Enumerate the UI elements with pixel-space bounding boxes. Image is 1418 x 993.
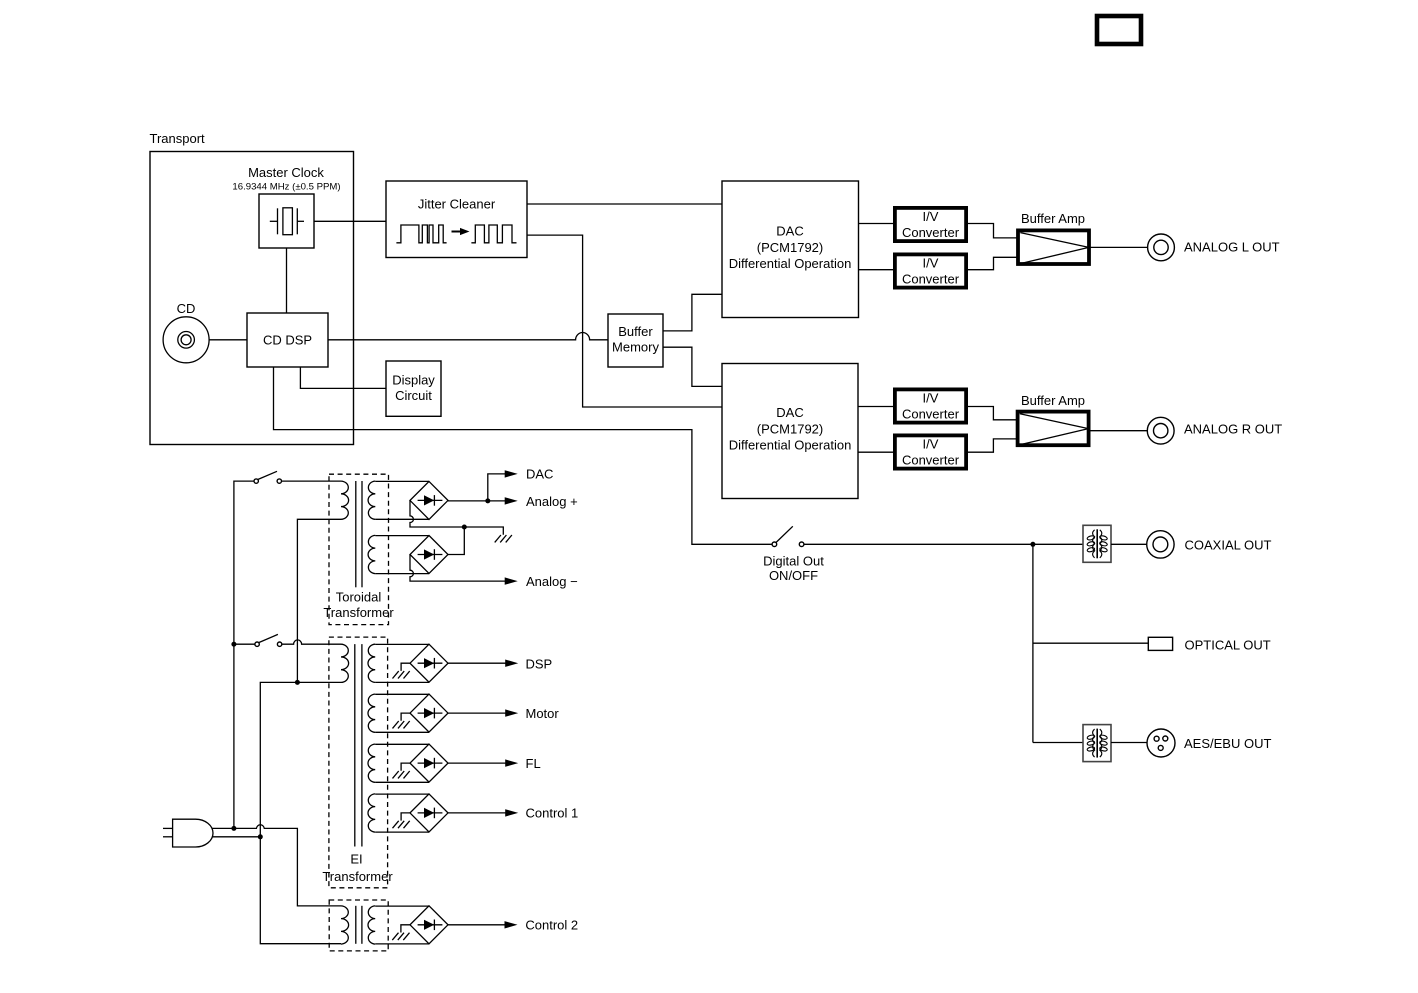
bridge rectifier D4 (Motor): [410, 694, 448, 732]
EI secondary winding Motor: [368, 694, 375, 732]
svg-text:FL: FL: [526, 756, 541, 771]
arrow Motor supply: [505, 709, 518, 716]
wire Control 2 output: [448, 924, 505, 926]
svg-text:ON/OFF: ON/OFF: [769, 568, 818, 583]
wire crystal to jitter cleaner: [314, 220, 386, 222]
wire EI primary return: [260, 682, 341, 836]
svg-text:AES/EBU OUT: AES/EBU OUT: [1184, 736, 1271, 751]
Control 2 transformer dashed box: [329, 900, 388, 951]
junction DAC / Analog plus: [485, 498, 490, 503]
junction analog ground node: [462, 525, 467, 530]
DAC R box U6: [722, 364, 858, 499]
crystal symbol: [270, 208, 304, 235]
EI core: [355, 644, 362, 846]
wire FL output: [448, 762, 506, 764]
svg-text:Transport: Transport: [150, 131, 206, 146]
wire mains vertical to switches: [234, 481, 254, 828]
wire Buffer Memory to DAC R: [663, 347, 722, 386]
label Toroidal Transformer: [323, 590, 394, 621]
svg-text:DAC: DAC: [776, 224, 803, 239]
svg-text:Buffer Amp: Buffer Amp: [1021, 393, 1085, 408]
wire I/V R2 to Buffer Amp R: [966, 439, 1018, 452]
Buffer Amp L box: [1018, 230, 1089, 264]
EI secondary winding Control 1: [368, 794, 375, 832]
wire jitter cleaner to DAC L: [527, 203, 722, 205]
svg-text:ANALOG R OUT: ANALOG R OUT: [1184, 422, 1282, 437]
svg-text:OPTICAL OUT: OPTICAL OUT: [1185, 638, 1271, 653]
svg-text:DSP: DSP: [526, 657, 553, 672]
wire I/V L2 to Buffer Amp L: [966, 257, 1018, 269]
wire DSP output: [448, 662, 506, 664]
Display Circuit box: [386, 361, 441, 416]
wire to AES/EBU transformer: [1033, 742, 1083, 744]
wire DAC L to I/V L1: [859, 223, 895, 225]
I/V Converter box L2: [895, 254, 966, 287]
arrow Control 1 supply: [505, 809, 518, 816]
wire DAC R to I/V R2: [858, 451, 895, 453]
label I/V Converter R2: [902, 437, 960, 468]
svg-text:Control 2: Control 2: [525, 918, 578, 933]
CD DSP box U3: [247, 313, 328, 367]
wire transformer to AES/EBU OUT: [1111, 742, 1147, 744]
bridge rectifier D6 (Control 1): [410, 794, 448, 832]
switch SW2 (EI primary): [255, 634, 282, 646]
wire DAC L to I/V L2: [859, 269, 895, 271]
arrow Analog plus: [505, 497, 518, 504]
bridge rectifier D5 (FL): [410, 744, 448, 782]
svg-text:CD: CD: [177, 301, 196, 316]
Transport enclosure: [150, 152, 354, 445]
junction EI / toroidal primary return: [295, 680, 300, 685]
svg-text:Motor: Motor: [526, 706, 560, 721]
svg-text:Converter: Converter: [902, 272, 960, 287]
svg-text:(PCM1792): (PCM1792): [757, 240, 823, 255]
switch SW1 (toroidal primary): [254, 471, 281, 483]
AES/EBU OUT connector (XLR): [1147, 729, 1175, 757]
wire transformer to COAXIAL OUT: [1111, 543, 1146, 545]
wire plug lower to Control 2 primary: [260, 837, 341, 944]
svg-text:Jitter Cleaner: Jitter Cleaner: [418, 197, 496, 212]
svg-text:Transformer: Transformer: [323, 605, 394, 620]
label I/V Converter L2: [902, 256, 960, 287]
ground chassis Control 1: [393, 813, 411, 828]
I/V Converter box L1: [895, 208, 966, 241]
junction plug lower node: [258, 834, 263, 839]
arrow Analog minus: [505, 577, 518, 584]
arrow Control 2 supply: [505, 921, 518, 928]
label Display Circuit: [392, 373, 435, 404]
bridge rectifier D7 (Control 2): [410, 906, 448, 944]
switch Digital Out: [772, 526, 804, 546]
CD disc symbol: [163, 317, 209, 363]
ground chassis Motor: [393, 713, 411, 728]
jittery waveform glyph: [396, 225, 446, 243]
wire Motor winding to bridge: [375, 694, 429, 732]
wire I/V L1 to Buffer Amp L: [966, 224, 1018, 238]
svg-text:Analog −: Analog −: [526, 574, 578, 589]
svg-text:Differential Operation: Differential Operation: [729, 256, 852, 271]
Buffer Amp R triangle: [1020, 414, 1089, 445]
svg-text:I/V: I/V: [923, 437, 939, 452]
wire FL winding to bridge: [375, 744, 429, 782]
wire CD DSP to Display Circuit: [300, 367, 386, 388]
toroidal primary winding: [341, 481, 349, 519]
wire bridge D1 plus to outputs: [448, 500, 505, 502]
svg-text:Converter: Converter: [902, 453, 960, 468]
bridge rectifier D3 (DSP): [410, 644, 448, 682]
wire DAC R to I/V R1: [858, 406, 895, 408]
wire secondary upper to bridge top: [375, 480, 429, 482]
COAXIAL OUT connector: [1147, 531, 1174, 558]
ground chassis FL: [393, 763, 411, 778]
wire Control 1 winding to bridge: [375, 794, 429, 832]
wire plug line lower: [212, 836, 260, 838]
svg-text:Control 1: Control 1: [526, 806, 579, 821]
toroidal secondary winding lower: [368, 535, 375, 573]
wire secondary lower to bridge bottom: [375, 573, 429, 575]
EI secondary winding DSP: [368, 644, 375, 682]
wire CD DSP to Buffer Memory with hop: [328, 333, 608, 340]
label DAC (PCM1792) Differential Operation L: [729, 224, 852, 272]
OPTICAL OUT connector: [1148, 637, 1172, 650]
wire Control 2 winding to bridge: [375, 906, 429, 944]
wire ground node to chassis: [464, 527, 503, 535]
AC plug P1: [163, 819, 213, 847]
svg-text:Memory: Memory: [612, 340, 659, 355]
DAC L box U5: [722, 181, 859, 318]
Control 2 primary winding: [341, 906, 349, 944]
label DAC (PCM1792) Differential Operation R: [729, 405, 852, 453]
legend box (top right): [1097, 16, 1141, 44]
pulse transformer T3 (AES/EBU): [1083, 725, 1111, 762]
wire to DAC supply arrow: [488, 474, 505, 501]
EI primary winding: [341, 644, 349, 682]
svg-text:EI: EI: [350, 852, 362, 867]
wire mains tap to SW2: [234, 643, 255, 645]
arrow DSP supply: [505, 660, 518, 667]
bridge rectifier D1: [410, 481, 448, 519]
svg-text:16.9344 MHz (±0.5 PPM): 16.9344 MHz (±0.5 PPM): [232, 182, 340, 193]
svg-text:Digital Out: Digital Out: [763, 554, 824, 569]
svg-text:Buffer Amp: Buffer Amp: [1021, 211, 1085, 226]
junction plug upper / mains vertical: [231, 826, 236, 831]
wire bridge D2 minus to Analog minus with hop: [410, 555, 505, 582]
svg-text:I/V: I/V: [923, 256, 939, 271]
svg-text:COAXIAL OUT: COAXIAL OUT: [1185, 538, 1272, 553]
svg-text:Converter: Converter: [902, 225, 960, 240]
wire secondary upper to bridge bottom: [375, 518, 429, 520]
bridge rectifier D2: [410, 536, 448, 574]
Buffer Amp R box: [1018, 412, 1089, 446]
I/V Converter box R1: [895, 389, 966, 422]
pulse transformer T2 (coaxial): [1083, 525, 1111, 562]
wire SW1 to toroidal primary: [282, 480, 342, 482]
waveform arrow: [452, 228, 470, 235]
Jitter Cleaner box U2: [386, 181, 527, 258]
Control 2 transformer core: [356, 906, 362, 944]
svg-text:CD DSP: CD DSP: [263, 333, 312, 348]
svg-text:Transformer: Transformer: [322, 869, 393, 884]
ANALOG L OUT connector: [1148, 234, 1175, 261]
svg-text:DAC: DAC: [526, 467, 553, 482]
EI Transformer dashed box: [329, 637, 388, 888]
ANALOG R OUT connector: [1147, 417, 1174, 444]
label Digital Out ON/OFF: [763, 554, 824, 583]
junction switch 2 tap: [231, 642, 236, 647]
wire Buffer Amp R to ANALOG R OUT: [1089, 430, 1148, 432]
arrow DAC supply: [505, 470, 518, 477]
Control 2 secondary winding: [368, 906, 375, 944]
svg-text:ANALOG L OUT: ANALOG L OUT: [1184, 240, 1280, 255]
svg-text:Circuit: Circuit: [395, 388, 432, 403]
svg-text:I/V: I/V: [923, 391, 939, 406]
Buffer Amp L triangle: [1020, 233, 1089, 264]
wire ground node to bridge D2 plus: [448, 527, 464, 555]
svg-text:Toroidal: Toroidal: [336, 590, 382, 605]
toroidal secondary winding upper: [368, 481, 375, 519]
ground chassis (analog): [495, 535, 512, 542]
wire CD DSP to digital out switch: [274, 367, 773, 544]
wire plug line upper with hop: [212, 825, 341, 906]
arrow FL supply: [505, 759, 518, 766]
Buffer Memory box U4: [608, 314, 663, 367]
wire DSP winding to bridge: [375, 644, 429, 682]
wire secondary lower to bridge top: [375, 535, 429, 537]
label EI Transformer: [322, 852, 393, 885]
I/V Converter box R2: [895, 435, 966, 468]
wire Buffer Memory to DAC L: [663, 294, 722, 331]
svg-text:Display: Display: [392, 373, 435, 388]
wire bridge D1 minus to ground node with hop: [410, 500, 464, 527]
ground chassis DSP: [393, 663, 411, 678]
svg-text:I/V: I/V: [923, 209, 939, 224]
svg-text:Differential Operation: Differential Operation: [729, 438, 852, 453]
svg-text:Master Clock: Master Clock: [248, 165, 324, 180]
wire Motor output: [448, 712, 506, 714]
wire CD to CD DSP: [209, 339, 247, 341]
wire crystal to CD DSP: [286, 248, 288, 313]
svg-text:(PCM1792): (PCM1792): [757, 421, 823, 436]
svg-text:Analog +: Analog +: [526, 494, 578, 509]
wire I/V R1 to Buffer Amp R: [966, 407, 1018, 420]
svg-text:Buffer: Buffer: [618, 324, 653, 339]
svg-text:DAC: DAC: [776, 405, 803, 420]
wire jitter cleaner to DAC R: [527, 235, 722, 407]
wire switch to coaxial transformer: [804, 543, 1083, 545]
wire to OPTICAL OUT: [1033, 642, 1148, 644]
wire SW2 to EI primary with hop: [282, 640, 341, 644]
crystal oscillator X1 box: [259, 194, 314, 248]
wire toroidal primary return: [297, 519, 341, 681]
EI secondary winding FL: [368, 744, 375, 782]
wire Control 1 output: [448, 812, 506, 814]
ground chassis Control 2: [392, 925, 410, 940]
wire digital bus vertical: [1032, 544, 1034, 742]
wire Buffer Amp L to ANALOG L OUT: [1089, 246, 1148, 248]
label I/V Converter R1: [902, 391, 960, 422]
label Buffer Memory: [612, 324, 659, 355]
Toroidal Transformer T1 dashed box: [329, 474, 389, 624]
clean waveform glyph: [471, 225, 516, 243]
svg-text:Converter: Converter: [902, 407, 960, 422]
toroidal core: [356, 481, 362, 587]
label I/V Converter L1: [902, 209, 960, 240]
junction digital out node: [1030, 542, 1035, 547]
